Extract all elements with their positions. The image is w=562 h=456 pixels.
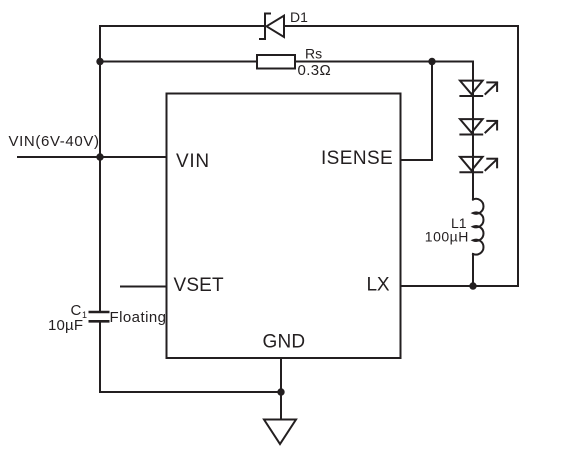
svg-text:ISENSE: ISENSE xyxy=(321,148,393,169)
svg-text:VIN(6V-40V): VIN(6V-40V) xyxy=(9,133,100,150)
svg-text:10µF: 10µF xyxy=(48,317,83,334)
svg-text:Floating: Floating xyxy=(110,309,167,326)
svg-text:D1: D1 xyxy=(290,9,308,25)
svg-text:VSET: VSET xyxy=(174,275,225,296)
svg-text:100µH: 100µH xyxy=(425,229,469,245)
svg-text:LX: LX xyxy=(367,275,391,296)
svg-text:GND: GND xyxy=(263,332,306,353)
svg-text:Rs: Rs xyxy=(305,46,322,62)
svg-text:VIN: VIN xyxy=(176,151,210,172)
svg-text:0.3Ω: 0.3Ω xyxy=(298,62,332,79)
